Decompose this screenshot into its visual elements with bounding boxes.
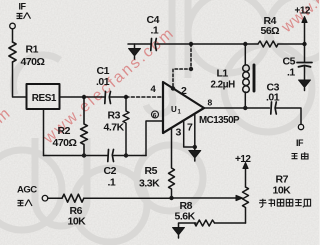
label 输入 (AGC) [18,200,33,207]
wire node to pin 4 (dashed) [126,96,163,98]
node R2 top junction [82,95,86,99]
node R2 bottom [82,153,86,157]
svg-text:6: 6 [153,112,157,119]
+12 arrow (bottom) [245,167,247,187]
pin 6 circle marker [152,111,159,118]
node +12 / C5 [302,42,306,46]
capacitor C5 [304,44,306,62]
resistor R8 [194,220,214,226]
wire RES1 bottom stub [43,109,45,156]
potentiometer R7 [243,187,249,223]
IF input terminal [10,23,16,29]
node L1 bottom junction [243,106,247,110]
wire L1 node to R4 [245,43,258,45]
svg-text:.01: .01 [266,92,280,104]
svg-text:4.7K: 4.7K [104,122,125,134]
svg-text:C2: C2 [104,165,117,177]
label 手动增益控制 (manual gain control) [259,199,311,208]
wire C3 to IF out [276,108,301,124]
wire pin 6 riser [146,121,163,156]
svg-text:2: 2 [181,85,187,97]
wire terminal to R1 [12,29,14,42]
wire pin2 node to L1 node [191,43,245,45]
resistor R2 [81,97,88,156]
ground G1 (C4 left) [134,44,136,49]
watermark red text www.elecfans.com [0,0,320,148]
pin 3 wire + resistor R5 [169,128,175,198]
svg-text:.1: .1 [108,177,116,189]
capacitor C4 [150,39,153,51]
wire RES1 right to C1 [60,96,105,98]
op-amp U1 MC1350P triangle [163,82,204,133]
svg-text:7: 7 [187,122,193,134]
wire R8 to ground [179,223,197,227]
ground G3 (C5) [299,80,311,88]
svg-text:2.2μH: 2.2μH [211,80,236,91]
svg-text:R5: R5 [145,165,158,177]
wire C4 to pin2 node [156,43,191,45]
L1 core bar [253,65,256,91]
node R3 top junction [124,95,128,99]
resistor R3 [123,97,129,156]
svg-text:3.3K: 3.3K [139,178,160,190]
svg-text:IF: IF [296,138,304,148]
svg-text:5.6K: 5.6K [175,211,196,223]
node pin2 drop [189,42,193,46]
resistor R6 [62,194,84,202]
block RES1 [27,84,60,109]
svg-text:U: U [171,105,177,114]
inductor L1 [244,44,246,65]
wire bias line right [114,155,147,157]
node R5 bottom [169,196,173,200]
svg-text:L1: L1 [217,68,229,80]
+12 arrow (top right) [304,20,306,44]
wire C1 to node [111,96,127,98]
ground G2 (pin 7) [194,147,196,151]
capacitor C3 [270,102,273,114]
AGC input terminal [42,195,48,201]
svg-text:.1: .1 [151,25,159,37]
svg-text:R2: R2 [58,125,71,137]
resistor R1 [9,42,16,62]
IF output terminal [298,124,303,129]
resistor R4 [258,41,278,47]
svg-text:.01: .01 [96,76,110,88]
wire R6 to R5 node [84,197,172,199]
svg-text:10K: 10K [68,216,87,228]
wire bias line left [44,155,108,157]
wire R7 bottom to R8 [215,222,246,224]
wire R4 to +12 node [278,43,305,45]
pin 2 dashed path [173,44,191,88]
node pin7 ground [193,145,197,149]
pin 5 wire [184,121,195,147]
svg-text:56Ω: 56Ω [261,25,280,37]
wiper arrowhead R7 [236,195,243,200]
node R3 bottom [124,153,128,157]
svg-text:470Ω: 470Ω [21,56,45,68]
capacitor C2 [107,150,110,162]
svg-text:.1: .1 [287,67,295,79]
capacitor C1 [104,92,107,104]
pin 7 wire [194,114,196,147]
svg-text:10K: 10K [273,185,292,197]
svg-text:470Ω: 470Ω [53,137,77,149]
wire R1 to corner to RES1 [13,62,27,97]
svg-text:IF: IF [19,2,27,12]
label 输入 (input) top [17,13,31,19]
wire AGC to R6 [48,197,62,199]
svg-text:+12: +12 [235,154,251,165]
svg-text:3: 3 [176,127,182,139]
svg-text:R1: R1 [26,44,39,56]
ground G4 (R8) [173,228,185,236]
top rail: ground to C4 [128,43,151,45]
wire to wiper arrow [172,197,239,199]
node L1 top [243,42,247,46]
svg-text:R3: R3 [108,110,121,122]
svg-text:AGC: AGC [17,185,37,196]
svg-text:MC1350P: MC1350P [199,115,240,126]
output wire from op-amp [204,107,270,109]
svg-text:RES1: RES1 [32,93,57,104]
svg-text:+12: +12 [295,6,311,17]
label 输出 (output) [292,152,309,159]
wire L1 bottom [244,92,246,108]
